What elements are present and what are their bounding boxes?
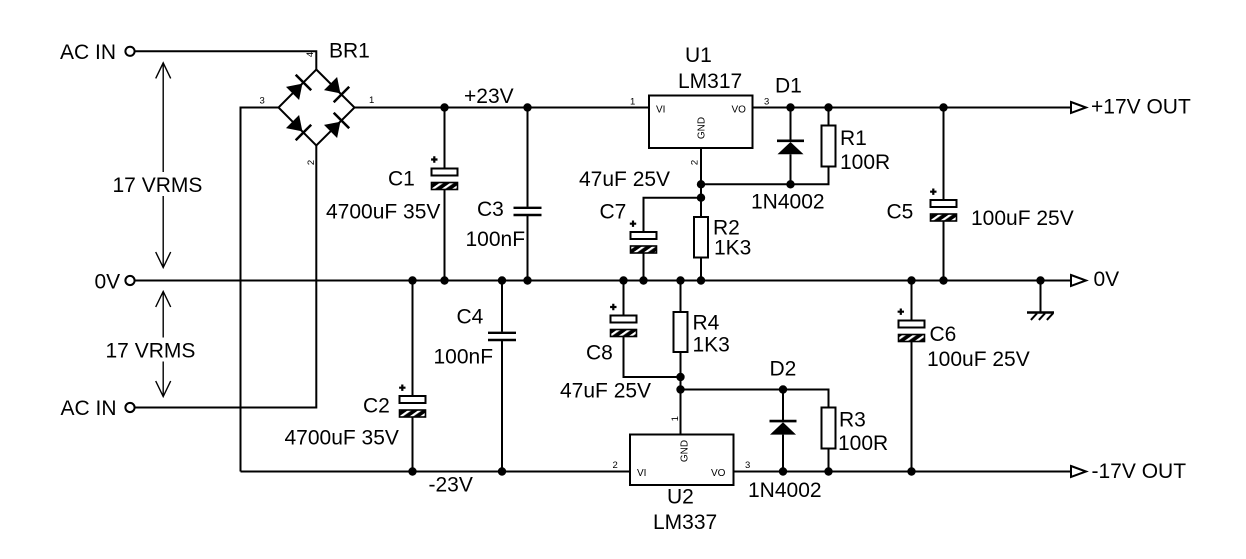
resistor R4 1K3 — [674, 281, 730, 435]
svg-text:LM337: LM337 — [653, 511, 717, 534]
svg-text:3: 3 — [764, 97, 769, 108]
svg-text:-17V OUT: -17V OUT — [1092, 460, 1187, 483]
BR1 diode (left-top edge, points to top) — [286, 75, 311, 100]
svg-text:4700uF 35V: 4700uF 35V — [326, 201, 440, 224]
junction: D1/+17V rail — [786, 103, 794, 111]
svg-text:R3: R3 — [839, 409, 866, 432]
junction: ground/0V — [1036, 276, 1044, 284]
capacitor C6 100uF 25V — [898, 281, 1030, 472]
node AC IN (top) terminal — [60, 41, 135, 64]
wire: C7 top to ADJ — [644, 198, 702, 232]
svg-text:3: 3 — [745, 460, 750, 471]
svg-text:C3: C3 — [477, 198, 504, 221]
wire: ADJ node to R1 bottom — [701, 167, 829, 184]
junction: C3/+23V — [523, 103, 531, 111]
BR1 diode (bottom-right edge, points to right) — [324, 113, 349, 138]
svg-text:C1: C1 — [388, 168, 415, 191]
svg-text:AC IN: AC IN — [60, 41, 116, 64]
svg-text:D2: D2 — [770, 358, 797, 381]
svg-text:100R: 100R — [840, 151, 890, 174]
svg-text:1: 1 — [670, 416, 681, 421]
wire: U2 VO to -17V OUT — [734, 471, 1072, 473]
junction: C7/ADJ — [697, 194, 705, 202]
svg-text:GND: GND — [680, 440, 691, 462]
svg-text:100nF: 100nF — [434, 346, 494, 369]
BR1 diode (top-right edge, points to right) — [324, 77, 349, 102]
svg-text:0V: 0V — [1094, 268, 1120, 291]
svg-text:C8: C8 — [586, 342, 613, 365]
junction: R4/ADJ2 — [676, 385, 684, 393]
svg-text:17 VRMS: 17 VRMS — [113, 174, 203, 197]
resistor R3 100R — [822, 408, 889, 472]
junction: C7/0V — [639, 276, 647, 284]
junction: R1/+17V rail — [824, 103, 832, 111]
svg-text:BR1: BR1 — [329, 40, 370, 63]
junction: C5/0V — [939, 276, 947, 284]
junction: C6/-17V rail — [907, 467, 915, 475]
node 0V OUT — [1071, 268, 1119, 291]
svg-text:-23V: -23V — [429, 474, 473, 497]
capacitor C5 100uF 25V — [887, 108, 1074, 281]
junction: D2/-17V rail — [779, 467, 787, 475]
junction: C6/0V — [907, 276, 915, 284]
svg-text:0V: 0V — [95, 270, 121, 293]
junction: C1/0V — [440, 276, 448, 284]
ground — [1027, 281, 1054, 320]
junction: R2/0V — [697, 276, 705, 284]
diode D2 1N4002 — [748, 358, 822, 503]
capacitor C8 47uF 25V — [560, 281, 681, 403]
wire: ADJ2 to R3 top — [681, 390, 829, 408]
svg-text:C4: C4 — [457, 306, 484, 329]
junction: C5/+17V rail — [939, 103, 947, 111]
regulator U2 LM337 — [630, 435, 734, 535]
svg-text:D1: D1 — [775, 74, 802, 97]
wire: U1 VO to +17V OUT rail — [753, 107, 1072, 109]
capacitor C4 100nF — [434, 281, 517, 472]
resistor R2 1K3 — [694, 217, 751, 281]
svg-text:AC IN: AC IN — [61, 397, 117, 420]
svg-text:+17V OUT: +17V OUT — [1091, 96, 1191, 119]
node -17V OUT — [1071, 460, 1186, 483]
wire: AC IN bottom to bridge pin 2 — [135, 146, 316, 408]
BR1 diode (left-bottom edge, points to bottom) — [286, 115, 311, 140]
svg-text:VI: VI — [656, 105, 665, 116]
svg-text:1N4002: 1N4002 — [751, 191, 825, 214]
diode D1 1N4002 — [751, 74, 825, 213]
svg-text:1K3: 1K3 — [714, 237, 751, 260]
svg-text:GND: GND — [697, 117, 708, 139]
wire: U1 pin 2 (ADJ) down to R2 — [700, 148, 702, 217]
junction: ADJ/D1R1 — [697, 180, 705, 188]
svg-text:U2: U2 — [667, 486, 694, 509]
wire: bridge pin 3 to -23V rail — [241, 108, 279, 472]
wire: 0V rail — [135, 280, 1071, 282]
svg-text:17 VRMS: 17 VRMS — [106, 340, 196, 363]
label 17 VRMS (lower) with measure arrow — [103, 292, 197, 397]
svg-text:C2: C2 — [363, 395, 390, 418]
junction: C4/-23V rail — [498, 467, 506, 475]
capacitor C1 4700uF 35V — [326, 108, 458, 281]
svg-text:C5: C5 — [887, 201, 914, 224]
junction: C8/0V — [619, 276, 627, 284]
wire: AC IN top to bridge pin 4 — [135, 51, 316, 69]
svg-text:2: 2 — [306, 160, 317, 165]
svg-text:47uF 25V: 47uF 25V — [560, 380, 651, 403]
svg-text:LM317: LM317 — [678, 70, 742, 93]
bridge rectifier BR1 — [279, 40, 370, 146]
svg-text:1K3: 1K3 — [693, 334, 730, 357]
junction: D1/ADJ wire — [786, 180, 794, 188]
junction: R4/0V — [676, 276, 684, 284]
label 17 VRMS (upper) with measure arrow — [110, 63, 204, 268]
svg-text:100uF 25V: 100uF 25V — [971, 207, 1074, 230]
junction: C8/R4 — [676, 373, 684, 381]
capacitor C7 47uF 25V — [579, 168, 670, 281]
svg-text:C7: C7 — [600, 201, 627, 224]
svg-text:1: 1 — [630, 97, 635, 108]
node AC IN (bottom) terminal — [61, 397, 135, 420]
svg-text:R1: R1 — [840, 127, 867, 150]
svg-text:VI: VI — [637, 468, 646, 479]
capacitor C2 4700uF 35V — [285, 281, 426, 472]
svg-text:4: 4 — [305, 52, 316, 57]
svg-text:1N4002: 1N4002 — [748, 479, 822, 502]
junction: D2/ADJ2 — [779, 385, 787, 393]
svg-text:U1: U1 — [685, 44, 712, 67]
junction: C2/0V — [408, 276, 416, 284]
svg-text:R4: R4 — [693, 312, 720, 335]
svg-text:+23V: +23V — [464, 85, 514, 108]
junction: C2/-23V rail — [408, 467, 416, 475]
resistor R1 100R — [822, 108, 891, 175]
wire: -23V rail to U2 VI — [241, 471, 631, 473]
junction: C4/0V — [498, 276, 506, 284]
svg-text:1: 1 — [369, 95, 374, 106]
node 0V (left) terminal — [95, 270, 135, 293]
svg-text:2: 2 — [690, 160, 701, 165]
svg-text:4700uF 35V: 4700uF 35V — [285, 427, 399, 450]
junction: R3/-17V rail — [824, 467, 832, 475]
svg-text:VO: VO — [711, 468, 726, 479]
svg-text:2: 2 — [613, 460, 618, 471]
svg-text:100uF 25V: 100uF 25V — [927, 348, 1030, 371]
junction: C1/+23V — [440, 103, 448, 111]
svg-text:100R: 100R — [838, 432, 888, 455]
svg-text:3: 3 — [260, 96, 265, 107]
wire: +23V rail (bridge pin 1 to U1 VI) — [355, 107, 650, 109]
node +17V OUT — [1071, 96, 1191, 119]
svg-text:47uF 25V: 47uF 25V — [579, 168, 670, 191]
svg-text:100nF: 100nF — [466, 228, 526, 251]
svg-text:VO: VO — [732, 105, 747, 116]
capacitor C3 100nF — [466, 108, 542, 281]
regulator U1 LM317 — [649, 44, 753, 148]
svg-text:C6: C6 — [930, 323, 957, 346]
junction: C3/0V — [523, 276, 531, 284]
